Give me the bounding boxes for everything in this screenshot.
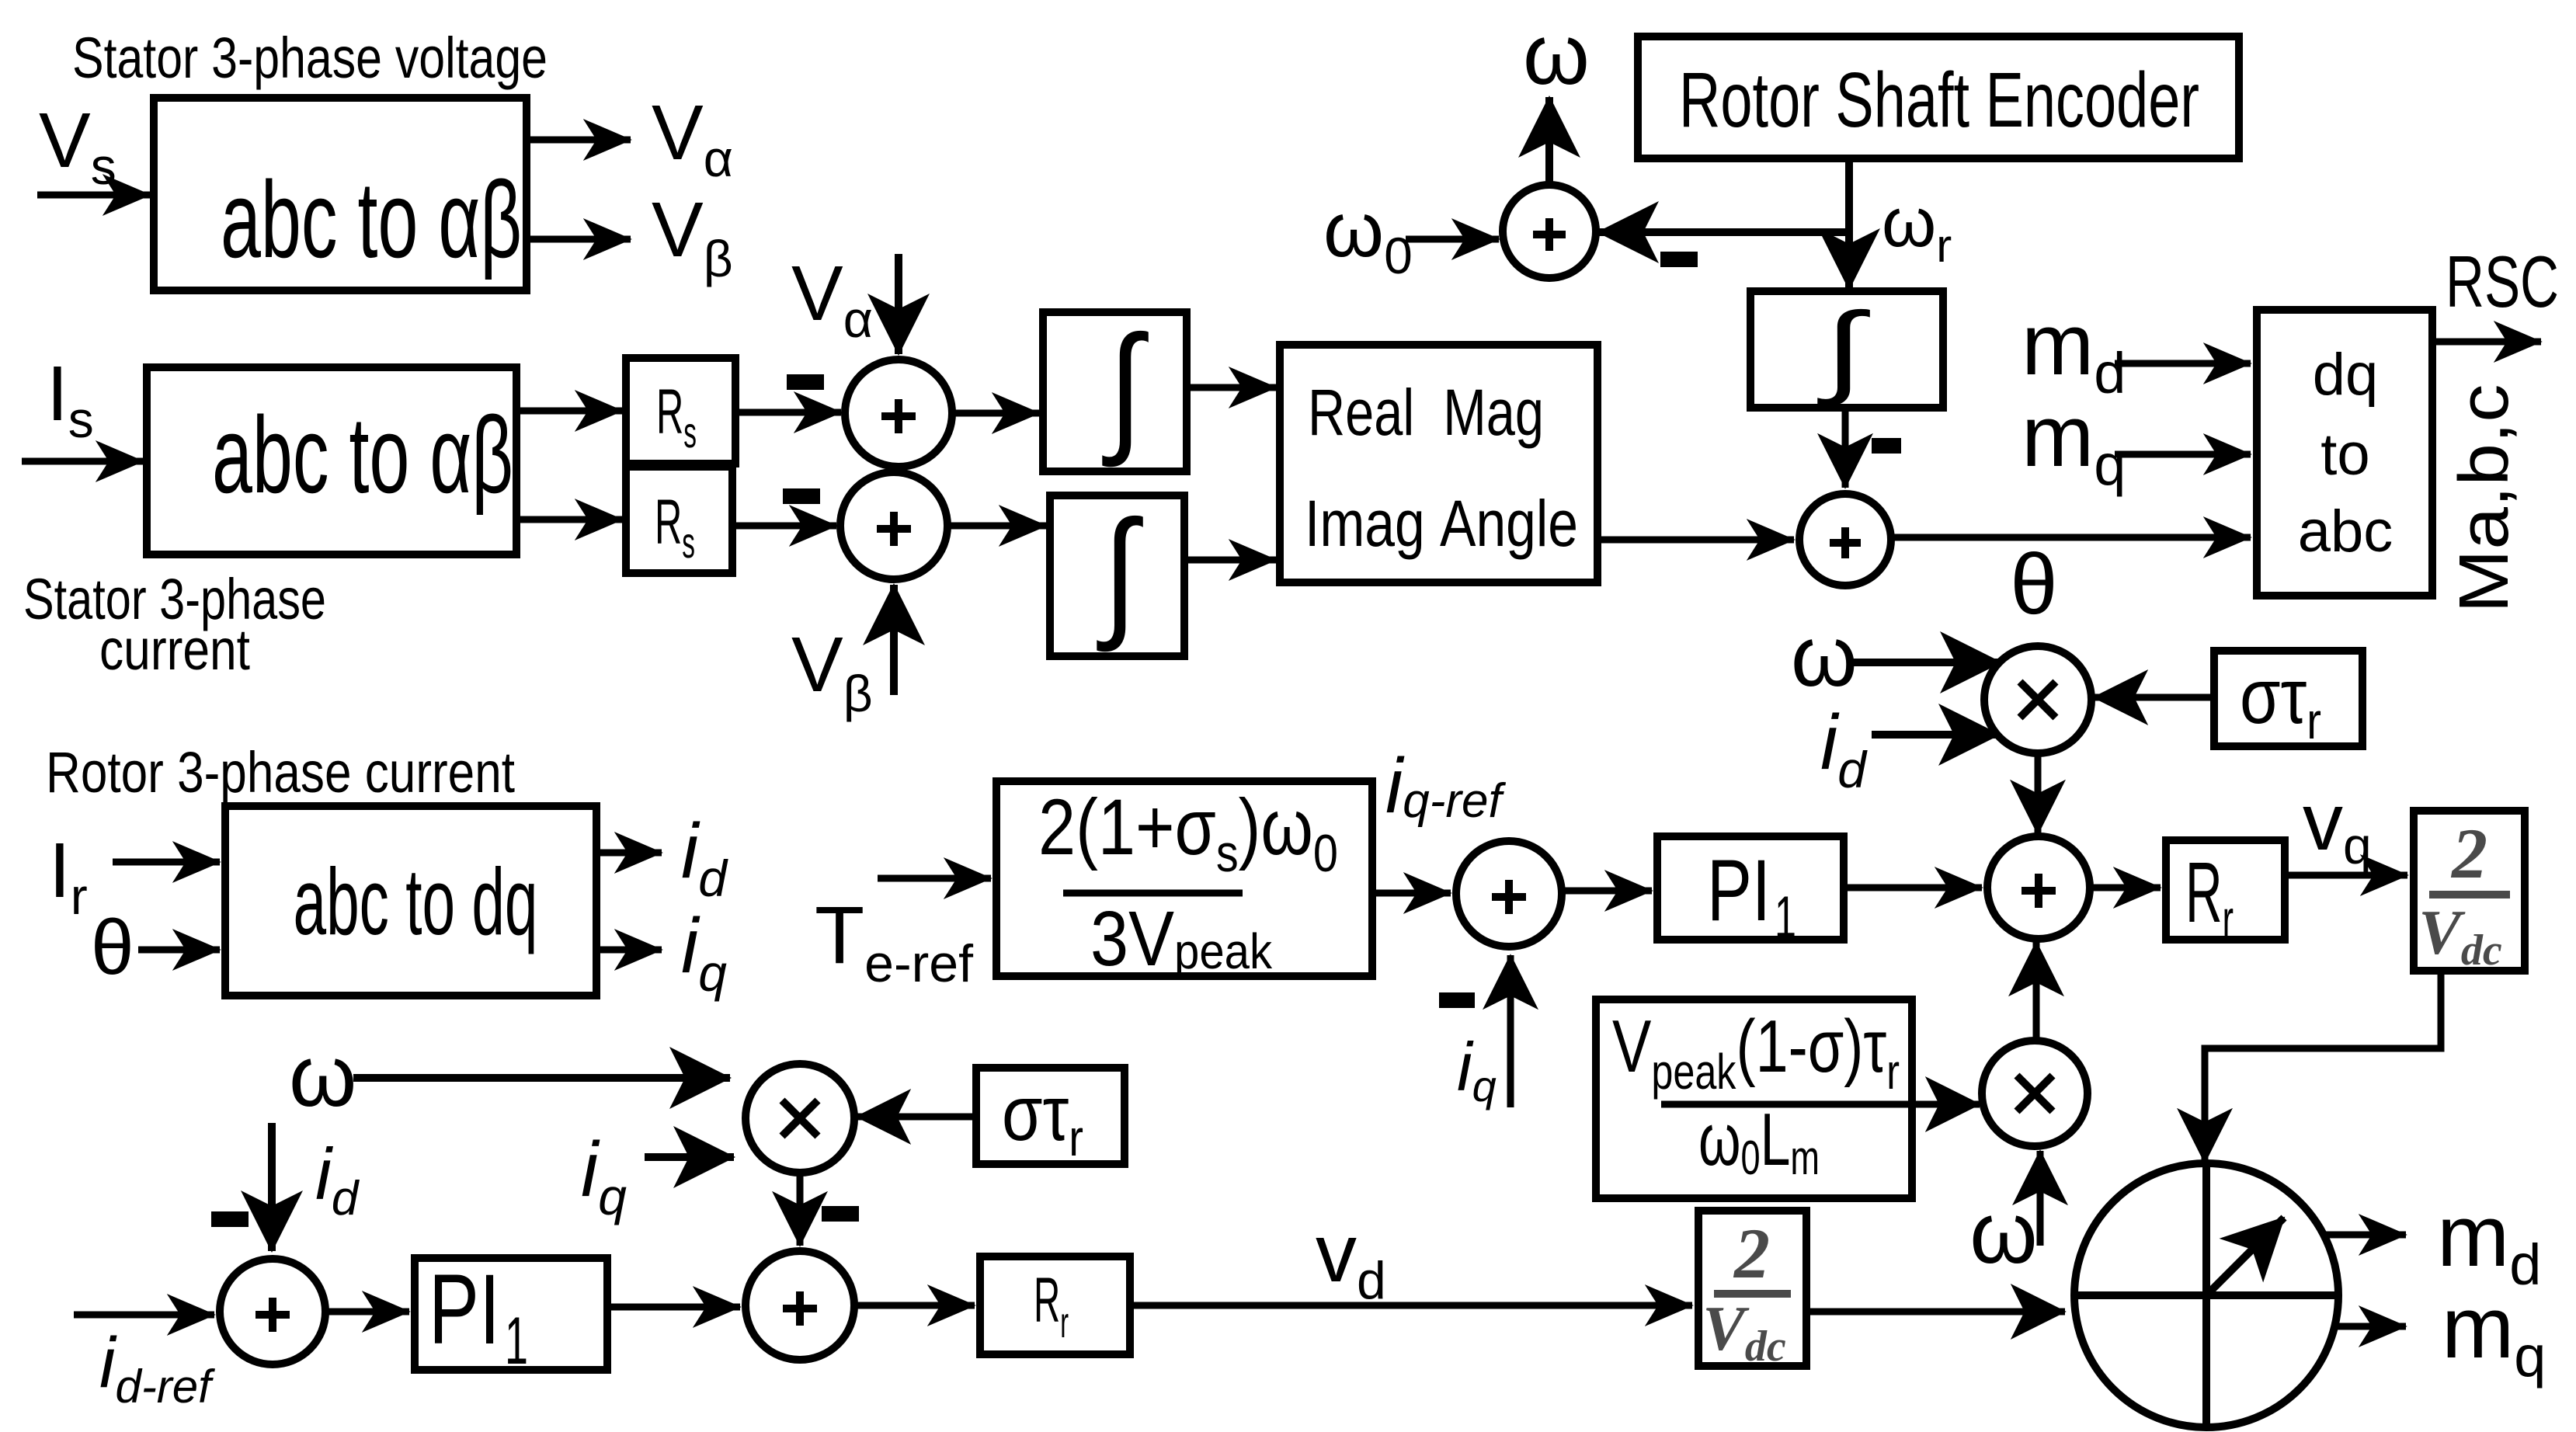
- svg-text:vd: vd: [1316, 1208, 1386, 1310]
- svg-text:Vs: Vs: [39, 97, 116, 195]
- svg-text:abc to dq: abc to dq: [294, 849, 538, 954]
- wire Valpha down into S1: [895, 254, 902, 354]
- svg-text:iq: iq: [1457, 1028, 1497, 1110]
- svg-text:id: id: [681, 808, 728, 907]
- wire encoder down to J3: [1845, 158, 1853, 289]
- block Rs1: [626, 358, 735, 464]
- wire PI1 to S5: [1844, 885, 1982, 892]
- wire S2 to integrator J2: [947, 523, 1046, 530]
- minus sign S7: [822, 1206, 859, 1222]
- svg-text:Is: Is: [47, 350, 94, 448]
- svg-text:Vα: Vα: [791, 250, 873, 348]
- svg-text:1: 1: [1775, 885, 1796, 951]
- wire omega up into M2: [2037, 1151, 2044, 1246]
- wire id into M1: [1872, 731, 1999, 739]
- svg-text:abc: abc: [2298, 499, 2393, 565]
- svg-text:vq: vq: [2303, 777, 2372, 874]
- wire Rs1 to summer S1: [735, 409, 841, 416]
- block PI1 lower: [415, 1254, 607, 1378]
- svg-text:Vβ: Vβ: [791, 621, 873, 722]
- wire J2 to RealImag: [1184, 557, 1276, 564]
- wire S4 to dq-abc: [1891, 534, 2251, 541]
- svg-text:Te-ref: Te-ref: [815, 890, 973, 993]
- wire Vbeta output: [527, 236, 631, 243]
- multiplier M3: [746, 1064, 854, 1173]
- multiplier M1: [1984, 646, 2091, 753]
- block integrator J2: [1050, 492, 1184, 656]
- wire md into dq-abc: [2115, 360, 2251, 367]
- minus sign S2: [783, 488, 820, 504]
- wire sigma-tau-r to M1: [2094, 694, 2213, 701]
- wire 2/Vdc down to polar circle: [2205, 971, 2441, 1163]
- svg-text:ω: ω: [1969, 1184, 2037, 1281]
- wire gain to summer S6: [1372, 890, 1451, 897]
- summer S1: [845, 360, 952, 467]
- block 2/Vdc lower: [1698, 1211, 1806, 1371]
- wire angle output to S4: [1597, 537, 1794, 544]
- summer S6: [1456, 841, 1562, 947]
- svg-text:∫: ∫: [1816, 292, 1870, 406]
- wire M2 up to S5: [2033, 942, 2040, 1041]
- svg-text:∫: ∫: [1097, 492, 1143, 652]
- svg-text:θ: θ: [91, 904, 134, 991]
- minus sign S8: [211, 1211, 249, 1227]
- block integrator J1: [1043, 308, 1187, 471]
- svg-text:Imag Angle: Imag Angle: [1305, 487, 1578, 560]
- block abc to dq: [225, 806, 596, 996]
- svg-text:id: id: [1820, 699, 1868, 798]
- wire Vs input: [37, 192, 150, 199]
- block sigma-tau-r upper: [2214, 651, 2362, 749]
- svg-text:Vβ: Vβ: [652, 186, 733, 287]
- block Rr upper: [2166, 840, 2285, 951]
- svg-text:ω0: ω0: [1323, 186, 1413, 284]
- wire J3 down to summer S4: [1842, 408, 1849, 488]
- svg-text:ω: ω: [289, 1027, 356, 1124]
- polar to dq converter circle: [2074, 1163, 2338, 1427]
- wire Rr to 2/Vdc upper: [2285, 872, 2407, 879]
- svg-text:RSC: RSC: [2446, 241, 2559, 322]
- wire mq into dq-abc: [2115, 451, 2251, 458]
- block U1 abc to alpha-beta (voltage): [154, 98, 527, 290]
- wire iq up into S6: [1507, 955, 1514, 1107]
- wire omega into M3: [353, 1074, 730, 1082]
- minus sign S6: [1439, 992, 1475, 1008]
- wire theta input: [138, 947, 220, 954]
- wire 2/Vdc to polar circle: [1806, 1309, 2065, 1316]
- summer S4 theta: [1799, 494, 1891, 586]
- svg-text:2: 2: [1733, 1214, 1770, 1293]
- block integrator J3: [1750, 291, 1943, 408]
- wire iq output: [596, 947, 662, 954]
- wire id down into S8: [268, 1123, 276, 1251]
- svg-text:θ: θ: [2010, 537, 2057, 632]
- block Te-ref gain: [996, 781, 1372, 982]
- svg-text:abc to αβ: abc to αβ: [221, 158, 522, 280]
- svg-text:Ir: Ir: [49, 827, 88, 925]
- svg-text:id-ref: id-ref: [99, 1323, 215, 1413]
- title stator 3-phase current: [23, 567, 326, 682]
- wire S1 to integrator J1: [952, 410, 1039, 417]
- wire M1 down to summer S5: [2035, 753, 2042, 834]
- svg-text:PI: PI: [429, 1254, 500, 1365]
- wire iq into M3: [645, 1153, 734, 1161]
- svg-text:PI: PI: [1707, 842, 1771, 939]
- svg-text:2: 2: [2450, 814, 2487, 893]
- wire RSC output: [2434, 339, 2541, 346]
- block 2/Vdc upper: [2414, 811, 2525, 975]
- wire Vbeta up into S2: [890, 585, 898, 695]
- summer S3 omega: [1503, 185, 1596, 278]
- wire omega into M1: [1848, 659, 2001, 666]
- wire U2 to Rs1: [516, 408, 622, 415]
- wire id-ref input: [74, 1312, 214, 1319]
- svg-text:Rotor Shaft Encoder: Rotor Shaft Encoder: [1679, 57, 2199, 144]
- block rotor shaft encoder: [1638, 36, 2239, 158]
- svg-text:2(1+σs)ω0: 2(1+σs)ω0: [1038, 783, 1338, 883]
- svg-text:ω: ω: [1791, 609, 1858, 704]
- svg-text:dq: dq: [2313, 342, 2379, 408]
- svg-text:iq: iq: [681, 902, 727, 1002]
- summer S2: [840, 472, 947, 579]
- wire Vpeak gain to M2: [1912, 1101, 1980, 1108]
- wire omega up out of S3: [1545, 97, 1553, 185]
- wire omega0 into S3: [1406, 236, 1499, 243]
- wire omega-r feedback into S3: [1598, 228, 1849, 236]
- summer S5: [1987, 836, 2090, 939]
- svg-text:Stator 3-phase voltage: Stator 3-phase voltage: [72, 26, 548, 90]
- wire S6 to PI1 upper: [1562, 888, 1652, 895]
- svg-text:Vα: Vα: [652, 89, 733, 187]
- wire mq output: [2331, 1323, 2406, 1330]
- block U2 abc to alpha-beta (current): [147, 367, 516, 554]
- wire sigma-tau-r to M3: [857, 1114, 975, 1121]
- svg-text:ωr: ωr: [1882, 184, 1952, 272]
- wire S5 to Rr upper: [2090, 885, 2161, 892]
- svg-text:current: current: [99, 617, 250, 682]
- block Real/Imag to Mag/Angle: [1280, 345, 1597, 582]
- svg-text:id: id: [315, 1133, 360, 1225]
- svg-text:Rotor 3-phase current: Rotor 3-phase current: [46, 740, 515, 805]
- svg-text:ω: ω: [1523, 7, 1590, 103]
- wire vd: [1130, 1302, 1692, 1309]
- svg-text:Ma,b,c: Ma,b,c: [2446, 384, 2523, 613]
- wire Te-ref input: [878, 875, 991, 882]
- svg-text:to: to: [2320, 422, 2369, 488]
- block dq to abc: [2257, 310, 2432, 596]
- svg-text:iq: iq: [581, 1126, 627, 1225]
- wire Valpha output: [527, 137, 631, 144]
- block Rr lower: [980, 1256, 1130, 1354]
- block Rs2: [626, 467, 732, 573]
- wire Rs2 to summer S2: [732, 523, 836, 530]
- minus sign S4: [1872, 438, 1901, 454]
- minus sign S3: [1660, 252, 1698, 267]
- wire Is input: [22, 458, 143, 465]
- summer S7: [746, 1251, 854, 1360]
- wire M3 down to summer S7: [797, 1173, 804, 1246]
- svg-text:∫: ∫: [1102, 308, 1149, 467]
- svg-text:Real Mag: Real Mag: [1308, 376, 1544, 449]
- multiplier M2: [1982, 1041, 2088, 1146]
- block PI1 upper: [1657, 836, 1844, 951]
- svg-text:abc to αβ: abc to αβ: [212, 394, 513, 516]
- wire J1 to RealImag: [1187, 384, 1276, 391]
- wire Ir input: [113, 859, 220, 866]
- wire S8 to PI1 lower: [325, 1309, 409, 1316]
- minus sign S1: [787, 374, 824, 390]
- svg-text:iq-ref: iq-ref: [1385, 742, 1506, 829]
- wire U2 to Rs2: [516, 516, 622, 523]
- wire S7 to Rr lower: [854, 1302, 975, 1309]
- svg-text:1: 1: [505, 1304, 528, 1378]
- block sigma-tau-r lower: [976, 1068, 1125, 1166]
- summer S8: [220, 1259, 325, 1364]
- wire md output: [2324, 1232, 2406, 1239]
- wire PI1 to S7: [607, 1304, 740, 1311]
- block Vpeak gain: [1596, 999, 1912, 1198]
- wire id output: [596, 850, 662, 857]
